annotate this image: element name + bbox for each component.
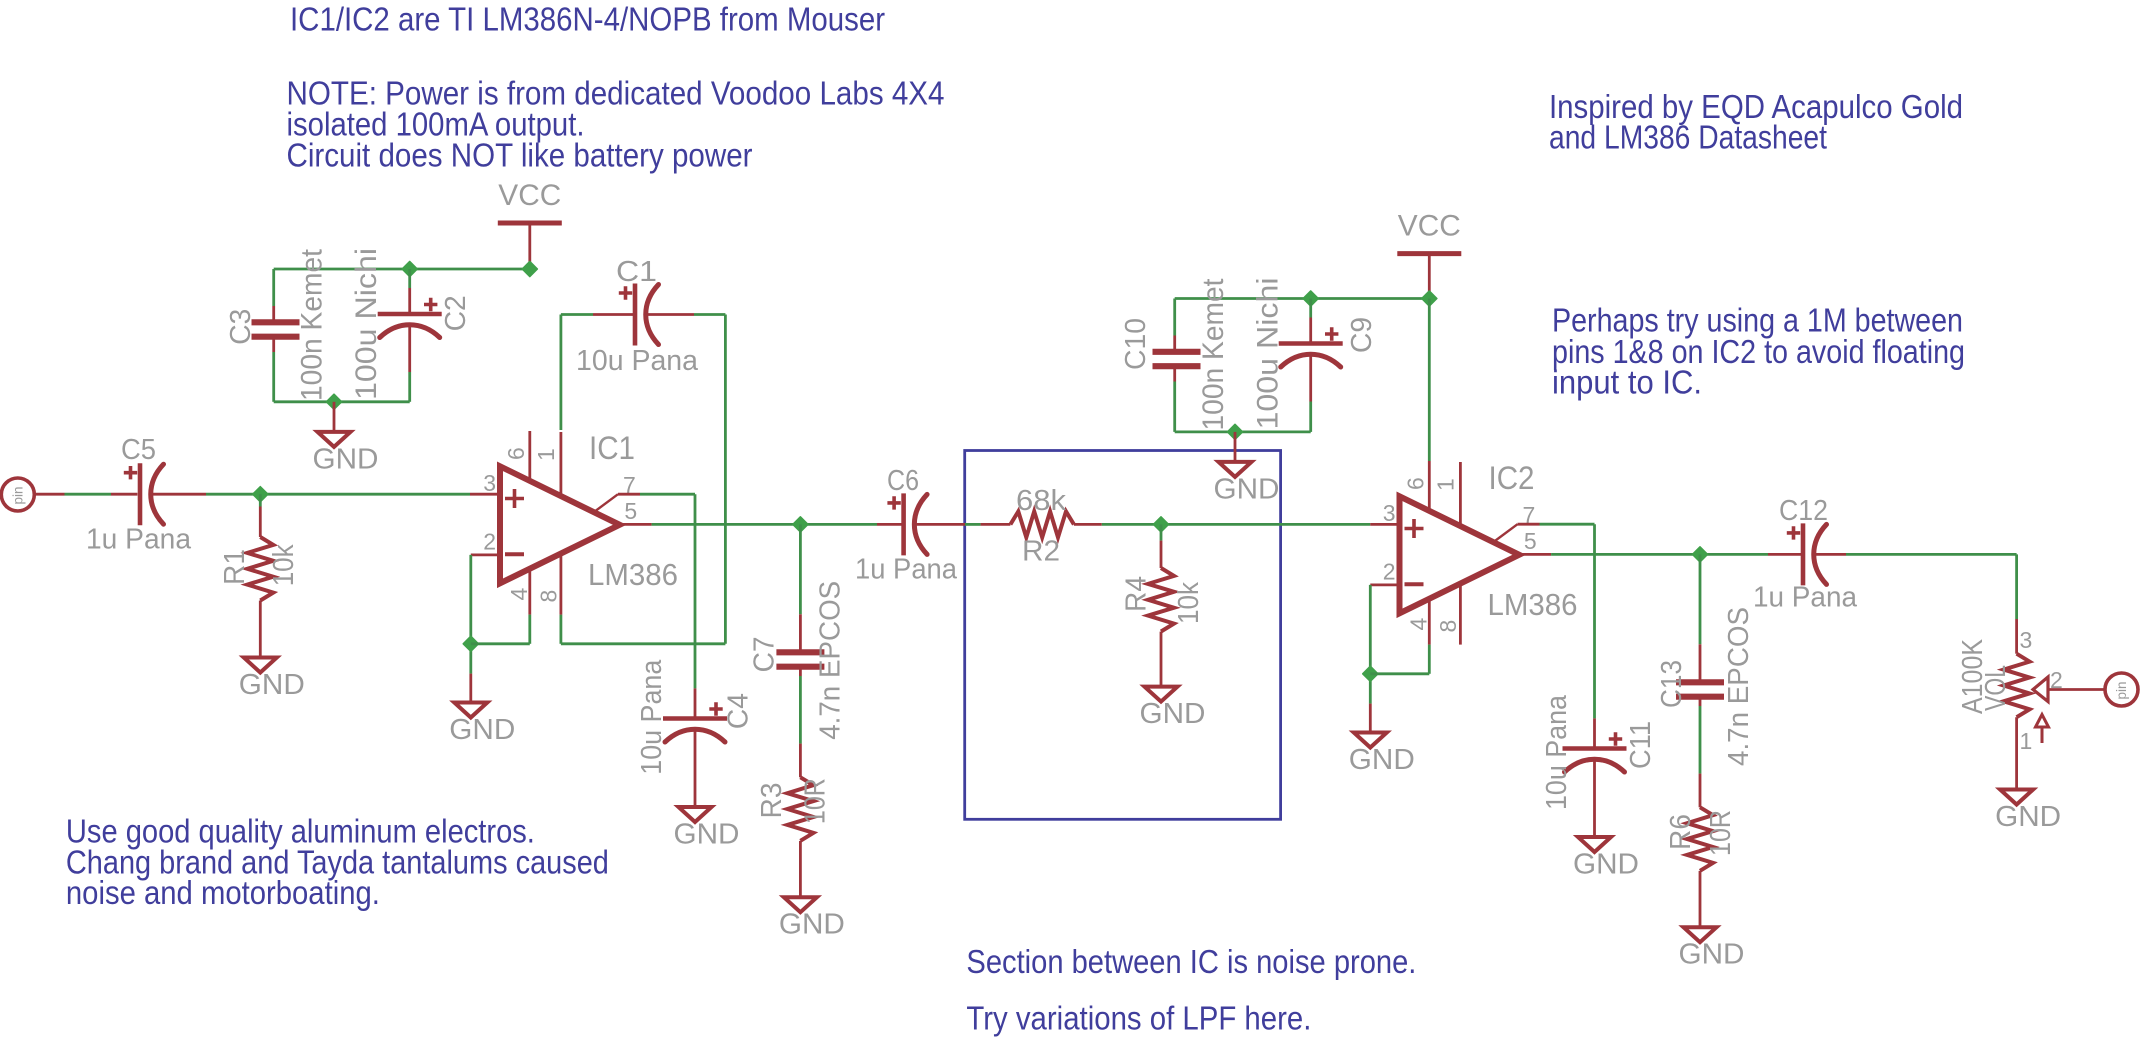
svg-text:3: 3 bbox=[1383, 500, 1396, 526]
svg-text:100u Nichi: 100u Nichi bbox=[350, 248, 383, 400]
junction bypass ground (IC2) bbox=[1227, 424, 1242, 439]
wire pin4 IC2 to ground node bbox=[1370, 599, 1429, 674]
wire R1 to ground bbox=[259, 601, 262, 658]
potentiometer VOL A100K bbox=[2004, 654, 2105, 743]
wire pin3 stub IC2 bbox=[1370, 523, 1399, 526]
svg-text:2: 2 bbox=[483, 529, 496, 555]
svg-text:1: 1 bbox=[533, 448, 559, 461]
svg-text:4: 4 bbox=[1406, 618, 1432, 631]
junction VCC rail / pin6 (IC1) bbox=[522, 261, 537, 276]
input pin connector bbox=[1, 478, 34, 511]
wire pin2 IC1 to ground node bbox=[471, 555, 500, 674]
wire C9 top bbox=[1309, 299, 1312, 344]
svg-text:10u Pana: 10u Pana bbox=[576, 345, 699, 377]
noise-prone section box bbox=[965, 451, 1281, 820]
wire C2 bottom bbox=[408, 325, 411, 401]
svg-text:C4: C4 bbox=[723, 693, 755, 729]
wire junction to ground (IC1 bypass) bbox=[333, 402, 336, 432]
svg-text:C9: C9 bbox=[1346, 317, 1378, 353]
svg-text:Try variations of LPF here.: Try variations of LPF here. bbox=[966, 1000, 1311, 1037]
capacitor C3 bbox=[252, 322, 300, 336]
junction pin2/pin4 ground node (IC2) bbox=[1363, 666, 1378, 681]
junction pin2/pin4 ground node (IC1) bbox=[463, 636, 478, 651]
resistor R6 bbox=[1687, 807, 1713, 871]
svg-text:Section between IC is noise pr: Section between IC is noise prone. bbox=[966, 943, 1416, 980]
ground below IC2 bbox=[1349, 733, 1415, 777]
wire R3 to ground bbox=[799, 841, 802, 897]
junction bypass ground (IC1) bbox=[326, 394, 341, 409]
capacitor C13 bbox=[1676, 682, 1724, 696]
wire output junction to C12 bbox=[1768, 553, 1803, 556]
junction VCC rail / pin6 (IC2) bbox=[1422, 291, 1437, 306]
wire pin4 IC1 to ground node bbox=[471, 569, 530, 644]
svg-text:VCC: VCC bbox=[498, 179, 561, 212]
svg-text:VCC: VCC bbox=[1398, 210, 1461, 243]
resistor R3 bbox=[787, 777, 813, 841]
svg-text:noise and motorboating.: noise and motorboating. bbox=[66, 874, 380, 911]
svg-text:C1: C1 bbox=[616, 256, 657, 288]
svg-text:3: 3 bbox=[483, 470, 496, 496]
capacitor C7 bbox=[776, 652, 824, 666]
svg-text:C2: C2 bbox=[440, 295, 472, 331]
wire ground stub (IC1 pin2/4) bbox=[469, 674, 472, 703]
junction C2 top bbox=[402, 261, 417, 276]
capacitor C12 bbox=[1787, 523, 1827, 585]
wire IC1 output bbox=[620, 523, 877, 526]
svg-text:R6: R6 bbox=[1665, 814, 1697, 850]
svg-text:C13: C13 bbox=[1656, 660, 1688, 708]
junction C9 top bbox=[1303, 291, 1318, 306]
wire ground stub (IC2 pin2/4) bbox=[1369, 704, 1372, 733]
ground below C10/C9 bbox=[1214, 462, 1280, 506]
resistor R2 bbox=[1010, 511, 1074, 537]
svg-text:8: 8 bbox=[536, 590, 562, 603]
note text: capacitor quality bbox=[66, 813, 609, 912]
svg-text:10u Pana: 10u Pana bbox=[636, 659, 668, 775]
svg-text:IC2: IC2 bbox=[1489, 460, 1535, 496]
svg-text:pin: pin bbox=[10, 486, 25, 504]
svg-text:R2: R2 bbox=[1022, 536, 1060, 568]
pin8 stub IC2 (floating) bbox=[1459, 582, 1462, 645]
svg-text:6: 6 bbox=[1403, 477, 1429, 490]
capacitor C9 bbox=[1279, 327, 1343, 367]
output pin connector bbox=[2105, 673, 2138, 706]
svg-text:C5: C5 bbox=[121, 434, 156, 466]
svg-text:GND: GND bbox=[1995, 801, 2061, 833]
svg-text:C11: C11 bbox=[1625, 721, 1657, 769]
svg-text:pin: pin bbox=[2114, 681, 2129, 699]
ground below pot bbox=[1995, 790, 2061, 834]
svg-text:IC1/IC2 are TI LM386N-4/NOPB f: IC1/IC2 are TI LM386N-4/NOPB from Mouser bbox=[290, 1, 885, 38]
VCC supply symbol (IC2) bbox=[1397, 210, 1461, 300]
junction IC2 output node bbox=[1692, 547, 1707, 562]
ground below C4 bbox=[674, 807, 740, 851]
svg-text:5: 5 bbox=[1524, 528, 1537, 554]
svg-text:2: 2 bbox=[2050, 667, 2063, 693]
wire output junction to C6 bbox=[877, 523, 904, 526]
wire junction to ground (IC2 bypass) bbox=[1234, 432, 1237, 462]
svg-text:GND: GND bbox=[1573, 849, 1639, 881]
wire IC2 output node to C13 bbox=[1699, 554, 1702, 679]
svg-text:R4: R4 bbox=[1121, 576, 1153, 612]
ground below R6 bbox=[1679, 927, 1745, 971]
svg-text:1: 1 bbox=[1433, 478, 1459, 491]
svg-text:10R: 10R bbox=[799, 778, 831, 824]
junction IC1 output node bbox=[793, 517, 808, 532]
svg-text:10k: 10k bbox=[268, 544, 300, 586]
svg-text:100n Kemet: 100n Kemet bbox=[1197, 278, 1230, 431]
wire C5 to node A bbox=[152, 493, 471, 496]
wire bypass ground rail (IC2) bbox=[1175, 430, 1311, 433]
ground below IC1 bbox=[449, 703, 515, 747]
capacitor C1 bbox=[619, 284, 659, 346]
svg-text:5: 5 bbox=[624, 498, 637, 524]
resistor R1 bbox=[247, 537, 273, 601]
svg-text:C3: C3 bbox=[225, 309, 257, 345]
wire C10 top bbox=[1173, 299, 1176, 350]
wire C4 to ground bbox=[694, 730, 697, 807]
pin6 stub IC2 bbox=[1428, 299, 1431, 514]
svg-text:4.7n EPCOS: 4.7n EPCOS bbox=[814, 581, 846, 740]
wire C9 bottom bbox=[1309, 355, 1312, 432]
junction R2/R4 node bbox=[1153, 517, 1168, 532]
wire output node to C7 bbox=[799, 524, 802, 649]
svg-text:GND: GND bbox=[313, 443, 379, 475]
svg-text:100n Kemet: 100n Kemet bbox=[296, 248, 329, 401]
svg-text:R3: R3 bbox=[756, 783, 788, 819]
wire C2 top bbox=[408, 269, 411, 314]
svg-text:10k: 10k bbox=[1173, 582, 1205, 624]
svg-text:GND: GND bbox=[1140, 698, 1206, 730]
wire C12 to volume pot bbox=[1815, 554, 2017, 653]
svg-text:8: 8 bbox=[1435, 620, 1461, 633]
svg-text:3: 3 bbox=[2020, 627, 2033, 653]
wire VCC rail (IC1) bbox=[274, 268, 530, 271]
svg-text:10u Pana: 10u Pana bbox=[1541, 694, 1573, 810]
wire R2 to IC2 pin3 bbox=[1074, 523, 1370, 526]
svg-text:C6: C6 bbox=[887, 465, 919, 497]
svg-text:1: 1 bbox=[2020, 728, 2033, 754]
svg-text:10R: 10R bbox=[1705, 810, 1737, 856]
svg-text:6: 6 bbox=[503, 447, 529, 460]
wire pot to ground bbox=[2015, 717, 2018, 789]
svg-text:GND: GND bbox=[239, 669, 305, 701]
svg-text:1u Pana: 1u Pana bbox=[86, 524, 192, 556]
svg-text:VOL: VOL bbox=[1980, 665, 2012, 711]
wire pin2 IC2 to ground node bbox=[1370, 585, 1399, 704]
svg-text:LM386: LM386 bbox=[588, 557, 678, 592]
wire C11 to ground bbox=[1593, 760, 1596, 837]
wire bypass ground rail (IC1) bbox=[274, 400, 410, 403]
svg-text:R1: R1 bbox=[219, 549, 251, 585]
svg-text:Circuit does NOT like battery: Circuit does NOT like battery power bbox=[287, 136, 753, 173]
svg-text:68k: 68k bbox=[1016, 485, 1067, 517]
capacitor C4 bbox=[663, 702, 727, 742]
svg-text:GND: GND bbox=[1679, 939, 1745, 971]
pin1 stub IC2 (floating) bbox=[1459, 462, 1462, 527]
capacitor C6 bbox=[887, 493, 927, 555]
capacitor C11 bbox=[1563, 732, 1627, 772]
wire C6 to R2 bbox=[915, 523, 1010, 526]
pin6 stub IC1 bbox=[528, 431, 531, 483]
ground below R3 bbox=[779, 897, 845, 941]
capacitor C5 bbox=[124, 463, 164, 525]
wire C13 to R6 bbox=[1699, 700, 1702, 808]
VCC supply symbol (IC1) bbox=[498, 179, 562, 269]
svg-text:C12: C12 bbox=[1779, 495, 1828, 527]
svg-text:4.7n EPCOS: 4.7n EPCOS bbox=[1723, 607, 1755, 766]
svg-text:IC1: IC1 bbox=[589, 430, 635, 466]
ground below C11 bbox=[1573, 837, 1639, 881]
wire pin7 IC1 to C4 bbox=[594, 494, 695, 718]
note text: power note bbox=[287, 74, 945, 173]
svg-text:2: 2 bbox=[1383, 559, 1396, 585]
svg-text:100u Nichi: 100u Nichi bbox=[1252, 278, 1285, 430]
note text: inspiration bbox=[1549, 88, 1963, 155]
wire C3 bottom bbox=[272, 340, 275, 402]
node A junction bbox=[253, 487, 268, 502]
svg-text:GND: GND bbox=[779, 909, 845, 941]
ground below R4 bbox=[1140, 687, 1206, 731]
wire IC2 output bbox=[1519, 553, 1768, 556]
svg-text:GND: GND bbox=[674, 819, 740, 851]
svg-text:1u Pana: 1u Pana bbox=[1753, 582, 1858, 614]
svg-text:LM386: LM386 bbox=[1488, 587, 1578, 622]
wire C3 top bbox=[272, 269, 275, 320]
svg-text:4: 4 bbox=[506, 588, 532, 601]
svg-text:input to IC.: input to IC. bbox=[1552, 363, 1702, 400]
wire R2/R4 node to R4 bbox=[1160, 524, 1163, 568]
wire VCC rail (IC2) bbox=[1175, 297, 1430, 300]
wire node A to R1 bbox=[259, 494, 262, 537]
svg-text:and LM386 Datasheet: and LM386 Datasheet bbox=[1549, 119, 1827, 156]
op-amp IC1 bbox=[500, 466, 620, 583]
wire input to C5 bbox=[34, 493, 137, 496]
svg-text:GND: GND bbox=[1214, 473, 1280, 505]
wire pin3 stub IC1 bbox=[470, 493, 500, 496]
wire pin1 IC1 to C1 bbox=[561, 315, 635, 498]
ground below C3/C2 bbox=[313, 432, 379, 476]
svg-text:C10: C10 bbox=[1120, 318, 1152, 370]
svg-text:GND: GND bbox=[449, 714, 515, 746]
ground below R1 bbox=[239, 658, 305, 702]
op-amp IC2 bbox=[1400, 496, 1520, 613]
note text: 1M suggestion bbox=[1552, 301, 1965, 400]
wire R6 to ground bbox=[1699, 871, 1702, 927]
wire R4 to ground bbox=[1160, 632, 1163, 687]
svg-text:C7: C7 bbox=[749, 636, 781, 672]
wire C1 to pin8 IC1 bbox=[561, 315, 726, 644]
svg-text:GND: GND bbox=[1349, 744, 1415, 776]
wire C7 to R3 bbox=[799, 670, 802, 778]
capacitor C2 bbox=[378, 298, 442, 338]
resistor R4 bbox=[1148, 568, 1174, 632]
wire pin7 IC2 to C11 bbox=[1494, 524, 1595, 748]
capacitor C10 bbox=[1153, 352, 1201, 366]
wire C10 bottom bbox=[1173, 369, 1176, 432]
svg-text:1u Pana: 1u Pana bbox=[855, 554, 958, 586]
